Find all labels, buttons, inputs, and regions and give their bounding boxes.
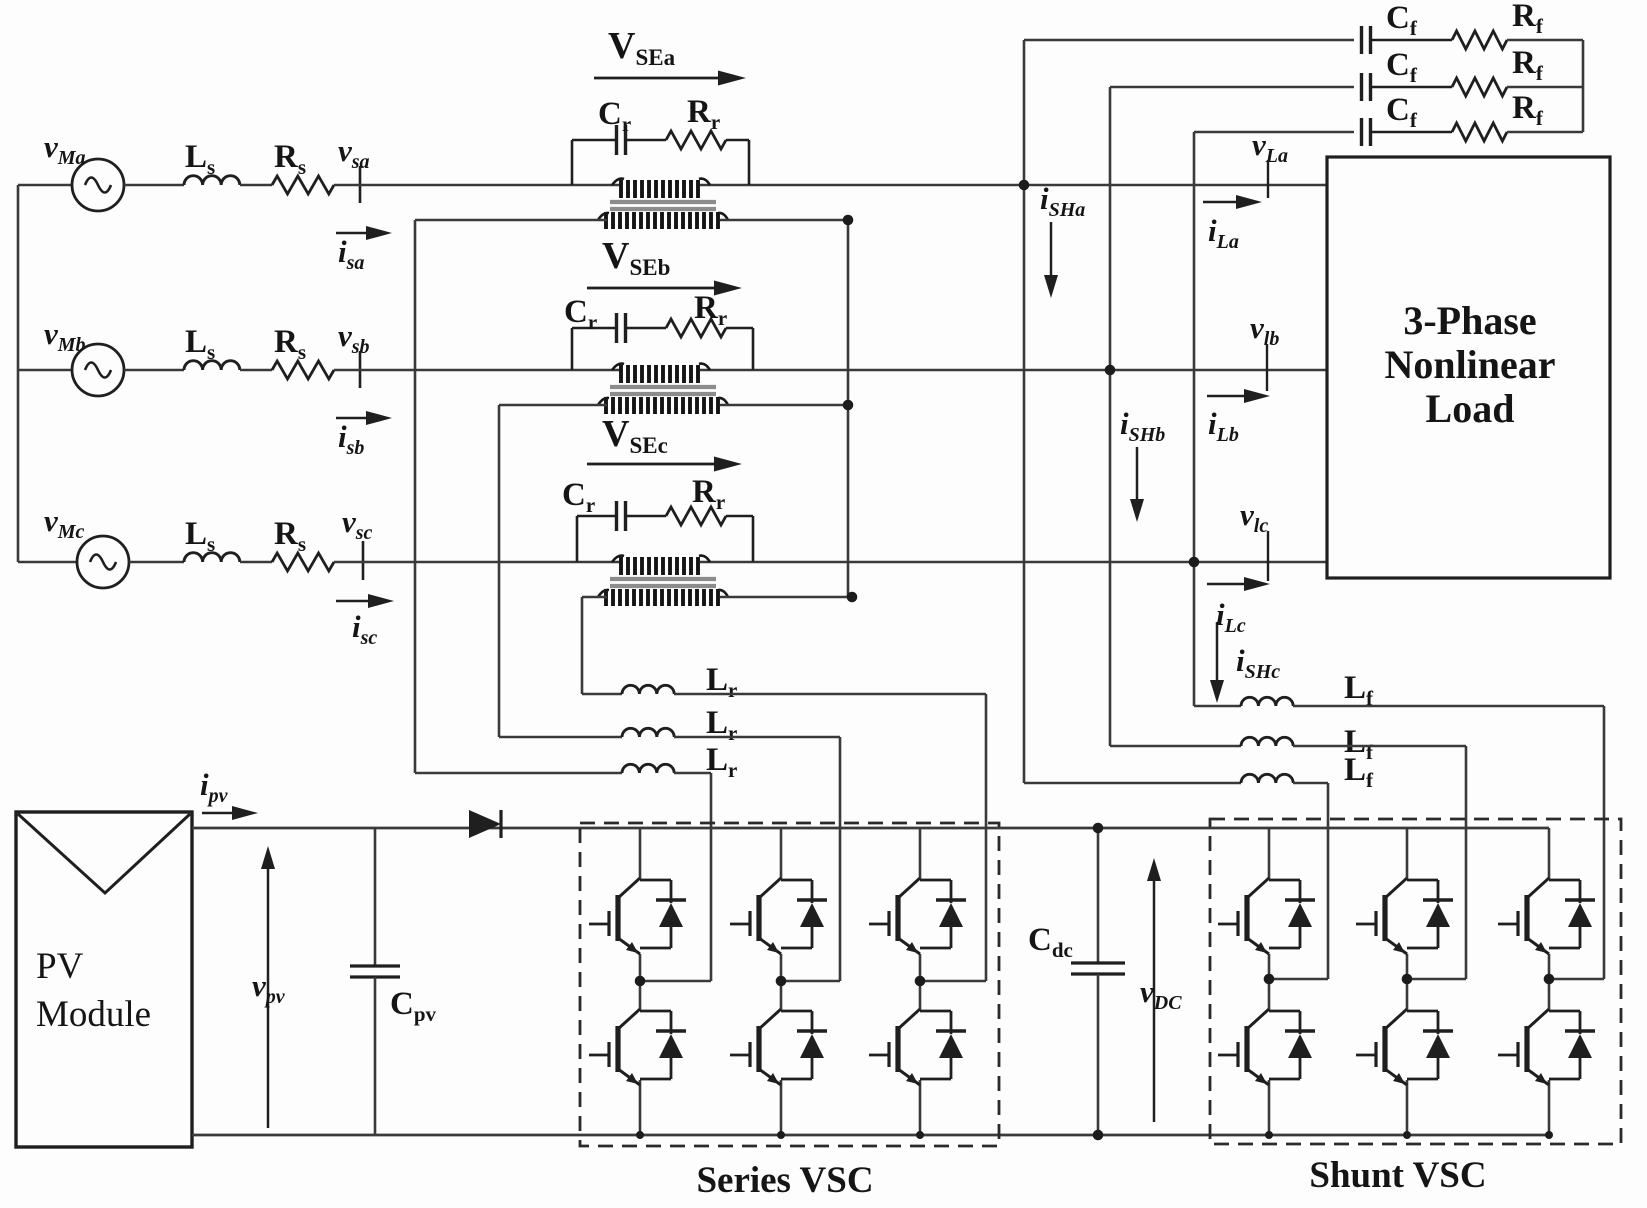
arrow iSHa bbox=[1040, 181, 1085, 298]
inductor Ls (phase a) bbox=[184, 139, 240, 185]
wire phase C to transformer bbox=[334, 561, 622, 564]
node vsc bbox=[342, 504, 373, 580]
svg-text:Shunt VSC: Shunt VSC bbox=[1309, 1155, 1486, 1196]
wire shunt leg 1 bbox=[1268, 828, 1271, 880]
node shunt midpoint 1 bbox=[1269, 978, 1328, 981]
inductor Lf (phase b) bbox=[1241, 724, 1374, 764]
wire Lr2 to series leg 2 bbox=[674, 736, 840, 739]
wire secondary b bbox=[499, 404, 607, 407]
source vMc bbox=[44, 503, 129, 588]
capacitor Cr / resistor Rr (phase a) bbox=[572, 94, 749, 185]
inductor Lr (leg a) bbox=[622, 742, 737, 782]
inductor Ls (phase c) bbox=[184, 516, 240, 562]
arrow iSHc bbox=[1210, 622, 1280, 703]
inductor Lr (leg c) bbox=[622, 662, 737, 702]
transistor Q4 (series bottom IGBT with diode) bbox=[730, 1009, 827, 1085]
source vMa bbox=[44, 129, 124, 211]
capacitor Cdc bbox=[1028, 828, 1125, 1135]
arrow ipv bbox=[200, 767, 258, 820]
node shunt leg 1 bottom bbox=[1265, 1131, 1273, 1139]
resistor Rf (2) bbox=[1372, 45, 1544, 96]
node series leg 3 bottom bbox=[916, 1131, 924, 1139]
inductor Lf (phase c) bbox=[1241, 670, 1374, 710]
series VSC dashed box bbox=[580, 823, 999, 1146]
transistor Q1 (series top IGBT with diode) bbox=[589, 878, 686, 954]
node shunt midpoint 2 bbox=[1407, 978, 1466, 981]
wire shunt leg 2 bbox=[1406, 828, 1409, 880]
wire phase A left bbox=[124, 184, 184, 187]
wire DC- rail bbox=[192, 1134, 1549, 1137]
node shunt b bbox=[1105, 365, 1116, 376]
wire phase A to transformer bbox=[334, 184, 622, 187]
wire Cf branch 1 left bbox=[1024, 39, 1354, 42]
svg-text:Nonlinear: Nonlinear bbox=[1384, 342, 1555, 387]
wire star bus bbox=[847, 220, 850, 597]
wire series leg 2 bbox=[780, 828, 783, 880]
wire phase C to load bbox=[700, 561, 1327, 564]
PV module box bbox=[16, 812, 192, 1147]
node series leg 2 bottom bbox=[777, 1131, 785, 1139]
transistor Q11 (shunt top IGBT with diode) bbox=[1498, 878, 1595, 954]
wire secondary a to Lr3 bbox=[414, 220, 417, 773]
wire Lf1 to shunt leg 3 bbox=[1293, 705, 1604, 708]
resistor Rs (phase c) bbox=[272, 516, 334, 571]
wire shunt bus b bbox=[1109, 87, 1112, 746]
wire bbox=[240, 184, 272, 187]
node shunt c bbox=[1189, 557, 1200, 568]
wire bbox=[240, 561, 272, 564]
source vMb bbox=[44, 316, 124, 396]
capacitor Cf (1) bbox=[1362, 0, 1418, 54]
svg-text:PV: PV bbox=[36, 946, 84, 987]
wire bbox=[240, 369, 272, 372]
wire secondary b to Lr2 bbox=[498, 405, 501, 737]
label VSEb with arrow bbox=[587, 235, 742, 296]
wire phase B left bbox=[124, 369, 184, 372]
node vLa bbox=[1252, 127, 1288, 198]
node vsb bbox=[338, 318, 370, 388]
wire Lr1 to series leg 3 bbox=[674, 693, 986, 696]
arrow iSHb bbox=[1120, 406, 1165, 522]
capacitor Cf (3) bbox=[1362, 92, 1418, 146]
svg-text:Module: Module bbox=[36, 994, 151, 1035]
node series midpoint 2 bbox=[781, 980, 840, 983]
wire Cf branch 3 left bbox=[1194, 131, 1354, 134]
arrow isa bbox=[336, 226, 392, 274]
transistor Q5 (series top IGBT with diode) bbox=[869, 878, 966, 954]
capacitor Cf (2) bbox=[1362, 47, 1418, 101]
wire Lf2 to shunt leg 2 bbox=[1293, 745, 1466, 748]
capacitor Cr / resistor Rr (phase b) bbox=[564, 290, 753, 370]
arrow isb bbox=[336, 411, 392, 459]
node DC+ bbox=[1093, 823, 1104, 834]
transistor Q7 (shunt top IGBT with diode) bbox=[1218, 878, 1315, 954]
shunt VSC dashed box bbox=[1210, 819, 1621, 1144]
wire secondary a bbox=[415, 219, 607, 222]
arrow vDC bbox=[1140, 858, 1182, 1122]
wire Cf branch 1 right bbox=[1507, 39, 1583, 42]
resistor Rs (phase b) bbox=[272, 324, 334, 379]
wire series leg 3 bbox=[919, 828, 922, 880]
wire secondary c bbox=[582, 596, 607, 599]
wire series leg 1 bbox=[639, 828, 642, 880]
load box: 3-Phase Nonlinear Load bbox=[1327, 157, 1610, 578]
wire Lf3 to shunt leg 1 bbox=[1293, 782, 1328, 785]
wire secondary c to Lr1 bbox=[581, 597, 584, 694]
wire Cf branch 2 left bbox=[1110, 86, 1354, 89]
transistor Q12 (shunt bottom IGBT with diode) bbox=[1498, 1009, 1595, 1085]
node shunt leg 2 bottom bbox=[1403, 1131, 1411, 1139]
label VSEa with arrow bbox=[594, 25, 746, 86]
transformer TSEb bbox=[598, 364, 728, 414]
wire DC+ rail bbox=[192, 827, 1549, 830]
node DC- bbox=[1093, 1130, 1104, 1141]
wire shunt bus c bbox=[1193, 132, 1196, 706]
transformer TSEc bbox=[598, 556, 728, 606]
wire: neutral bus left bbox=[17, 185, 20, 562]
arrow vpv bbox=[252, 846, 286, 1128]
arrow iLa bbox=[1203, 195, 1262, 253]
transistor Q8 (shunt bottom IGBT with diode) bbox=[1218, 1009, 1315, 1085]
resistor Rf (3) bbox=[1372, 90, 1544, 141]
resistor Rs (phase a) bbox=[272, 139, 334, 194]
svg-text:3-Phase: 3-Phase bbox=[1403, 298, 1536, 343]
wire phase B to load bbox=[700, 369, 1327, 372]
wire phase B to transformer bbox=[334, 369, 622, 372]
diode D1 bbox=[469, 810, 501, 838]
transformer TSEa bbox=[598, 179, 728, 229]
node shunt a bbox=[1019, 180, 1030, 191]
node series midpoint 1 bbox=[640, 980, 711, 983]
svg-text:Load: Load bbox=[1426, 386, 1515, 431]
resistor Rf (1) bbox=[1372, 0, 1544, 49]
inductor Lr (leg b) bbox=[622, 705, 737, 745]
label VSEc with arrow bbox=[587, 413, 742, 472]
node star c bbox=[847, 592, 858, 603]
node shunt midpoint 3 bbox=[1549, 978, 1604, 981]
inductor Ls (phase b) bbox=[184, 324, 240, 370]
node star b bbox=[843, 400, 854, 411]
wire shunt bus a bbox=[1023, 40, 1026, 783]
transistor Q10 (shunt bottom IGBT with diode) bbox=[1356, 1009, 1453, 1085]
node vlc bbox=[1240, 497, 1268, 581]
transistor Q3 (series top IGBT with diode) bbox=[730, 878, 827, 954]
node star a bbox=[843, 215, 854, 226]
wire phase A to load bbox=[700, 184, 1327, 187]
wire Lr3 to series leg 1 bbox=[674, 772, 711, 775]
node vsa bbox=[338, 133, 370, 203]
wire shunt leg 3 bbox=[1548, 828, 1551, 880]
wire Cf branch 3 right bbox=[1507, 131, 1583, 134]
wire Cf branch 2 right bbox=[1507, 86, 1583, 89]
node shunt leg 3 bottom bbox=[1545, 1131, 1553, 1139]
node series midpoint 3 bbox=[920, 980, 986, 983]
arrow isc bbox=[336, 594, 394, 649]
node series leg 1 bottom bbox=[636, 1131, 644, 1139]
transistor Q9 (shunt top IGBT with diode) bbox=[1356, 878, 1453, 954]
svg-text:Series VSC: Series VSC bbox=[696, 1160, 873, 1201]
arrow iLc bbox=[1207, 577, 1270, 637]
wire phase C left bbox=[129, 561, 184, 564]
transistor Q6 (series bottom IGBT with diode) bbox=[869, 1009, 966, 1085]
capacitor Cpv bbox=[350, 828, 437, 1135]
inductor Lf (phase a) bbox=[1241, 752, 1374, 792]
wire Cf common right bbox=[1582, 40, 1585, 132]
capacitor Cr / resistor Rr (phase c) bbox=[562, 474, 753, 562]
arrow iLb bbox=[1207, 389, 1270, 446]
transistor Q2 (series bottom IGBT with diode) bbox=[589, 1009, 686, 1085]
node vlb bbox=[1250, 310, 1279, 391]
